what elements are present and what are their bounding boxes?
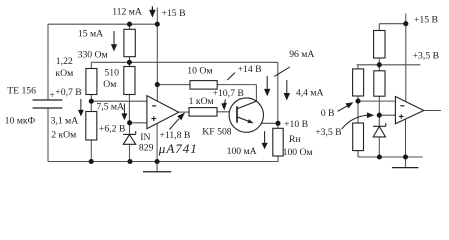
svg-text:+14 В: +14 В: [238, 64, 262, 75]
leader arrow: +10.7V label: [224, 99, 227, 103]
svg-text:+15 В: +15 В: [162, 8, 186, 19]
node: right +3.5 rail: [377, 62, 382, 67]
svg-text:+6,2 В: +6,2 В: [99, 123, 125, 134]
wire: +10V feedback rail: [91, 61, 277, 63]
resistor R2 1.22 kOm: [86, 69, 97, 95]
resistor R3 2 kOm: [86, 112, 97, 141]
wire: op-amp V- pin to ground: [156, 124, 158, 162]
svg-text:829: 829: [139, 142, 154, 153]
svg-text:330 Ом: 330 Ом: [78, 49, 108, 60]
leader arrow: +11.8V label: [170, 119, 179, 130]
wire: right zener stubs: [378, 115, 380, 157]
svg-text:+: +: [49, 90, 54, 101]
node: +10 rail 330-510: [127, 60, 132, 65]
wire: right op-amp V- to ground: [405, 119, 407, 157]
node: right +3.5 input: [377, 113, 382, 118]
wire: right +15V feed: [405, 14, 407, 102]
wire: Rn stubs: [277, 123, 279, 161]
svg-text:10 Ом: 10 Ом: [187, 66, 212, 77]
transistor Q1 collector stroke: [237, 101, 256, 109]
node: ground rail opamp: [155, 159, 160, 164]
wire: non-inverting input: [130, 122, 147, 124]
wire: +15V vertical feed: [156, 8, 158, 102]
wire: right bottom rail: [358, 156, 423, 158]
ground bar left: [143, 171, 171, 173]
transistor Q1 emitter stroke: [237, 117, 252, 123]
op-amp U2 plus sign: [399, 114, 404, 119]
wire: right divider stubs: [378, 65, 380, 115]
op-amp U1 uA741 triangle: [147, 96, 179, 129]
node: divider inverting input: [89, 99, 94, 104]
arrow: 112 mA current: [151, 7, 153, 11]
svg-text:3,1 мА: 3,1 мА: [51, 116, 79, 127]
svg-text:ТЕ 156: ТЕ 156: [7, 85, 36, 96]
resistor R7 right source: [374, 31, 385, 59]
resistor R9 right lower-left divider: [353, 123, 364, 151]
svg-text:15 мА: 15 мА: [78, 29, 103, 40]
node: +15 / 10 Om branch: [155, 82, 160, 87]
leader line: 96 mA label: [274, 67, 290, 76]
transistor Q1 KF508 circle: [229, 98, 263, 132]
leader arrow: +14V label: [228, 73, 235, 80]
wire: right inverting input: [358, 100, 395, 102]
node: right +15: [403, 21, 408, 26]
svg-text:Ом: Ом: [103, 79, 116, 90]
svg-text:7,5 мА: 7,5 мА: [96, 102, 124, 113]
node: +10V output: [275, 121, 280, 126]
node: ground rail zener: [127, 159, 132, 164]
wire: inverting input: [91, 100, 147, 102]
op-amp U1 plus sign: [151, 116, 156, 121]
transistor Q1 base bar: [236, 106, 238, 123]
svg-text:112 мА: 112 мА: [112, 6, 142, 17]
svg-text:1,22: 1,22: [56, 56, 73, 67]
wire: right to source R: [379, 24, 406, 65]
node: right 0V divider: [355, 99, 360, 104]
resistor R4 510 Om: [124, 67, 135, 95]
zener diode VD1 IN829: [123, 131, 136, 134]
resistor R6 10 Om: [190, 81, 217, 90]
svg-text:KF 508: KF 508: [202, 126, 231, 137]
wire: 1.22k stubs: [90, 62, 92, 101]
wire: +3.5V rail: [357, 64, 421, 66]
op-amp U1 minus sign: [152, 105, 156, 107]
resistor R8 right upper-left divider: [353, 69, 364, 96]
ground bar right: [392, 167, 419, 169]
resistor R5 1 kOm: [189, 108, 217, 117]
wire: collector feed through 10 Om: [157, 85, 256, 102]
svg-text:2 кОм: 2 кОм: [51, 130, 76, 141]
node: top rail +15: [155, 22, 160, 27]
node: right rail gnd: [403, 154, 408, 159]
leader arrow: +3.5V label: [342, 115, 368, 129]
wire: 510 stubs: [128, 62, 130, 123]
arrow: 100 mA current: [264, 131, 266, 143]
node: right rail zener: [377, 154, 382, 159]
capacitor C1 10uF plates: [33, 100, 63, 108]
svg-text:Rн: Rн: [289, 134, 301, 145]
resistor R10 right divider: [374, 71, 385, 96]
svg-text:1 кОм: 1 кОм: [189, 96, 214, 107]
svg-text:+3,5 В: +3,5 В: [413, 51, 439, 62]
op-amp U2 triangle: [395, 97, 423, 124]
transistor Q1 emitter arrowhead: [248, 119, 254, 123]
wire: base wire: [217, 111, 237, 113]
node: zener +6.2V: [127, 120, 132, 125]
arrow: 15 mA current: [113, 31, 115, 45]
arrow: 3.1 mA current: [80, 99, 82, 110]
svg-text:+3,5 В: +3,5 В: [315, 127, 341, 138]
wire: right non-inverting input: [379, 114, 395, 116]
svg-text:+10,7 В: +10,7 В: [213, 88, 244, 99]
wire: feedback riser: [277, 62, 279, 123]
svg-text:+11,8 В: +11,8 В: [159, 130, 190, 141]
svg-text:+0,7 В: +0,7 В: [55, 87, 81, 98]
arrow: 7.5 mA current: [123, 104, 125, 114]
wire: emitter to +10V node: [253, 122, 277, 124]
wire: bottom ground rail: [48, 156, 278, 162]
svg-text:10 мкФ: 10 мкФ: [5, 116, 36, 127]
zener diode VD2 right: [373, 123, 386, 126]
arrow: 96 mA current: [266, 76, 268, 89]
wire: left edge upper to capacitor: [47, 24, 49, 100]
arrow: 4.4 mA current: [286, 80, 288, 93]
wire: upper-left divider stubs: [357, 65, 359, 101]
svg-text:96 мА: 96 мА: [289, 49, 314, 60]
wire: zener stubs: [129, 123, 131, 162]
wire: 330 Om stubs: [129, 24, 131, 62]
resistor Rn 100 Om: [273, 128, 283, 156]
svg-text:4,4 мА: 4,4 мА: [296, 88, 324, 99]
svg-text:μA741: μA741: [158, 141, 198, 156]
wire: op-amp output: [179, 111, 189, 113]
resistor R1 330 Om: [124, 29, 135, 56]
wire: ground stub: [156, 162, 158, 172]
node: ground rail 2k: [89, 159, 94, 164]
node: top rail 330: [127, 22, 132, 27]
svg-text:+10 В: +10 В: [284, 119, 308, 130]
leader arrow: 0V label: [338, 106, 348, 112]
svg-text:+15 В: +15 В: [414, 15, 438, 26]
wire: right ground stub: [405, 157, 407, 168]
svg-text:кОм: кОм: [55, 68, 73, 79]
svg-text:0 В: 0 В: [321, 108, 335, 119]
svg-text:100 Ом: 100 Ом: [283, 147, 313, 158]
svg-text:100 мА: 100 мА: [227, 146, 257, 157]
op-amp U2 minus sign: [400, 105, 404, 107]
svg-text:510: 510: [104, 68, 119, 79]
wire: right op-amp output: [424, 110, 441, 112]
wire: left edge lower from capacitor: [47, 108, 49, 162]
wire: top rail of regulator box: [48, 23, 157, 25]
wire: lower-left divider stubs: [357, 101, 359, 157]
wire: 2k stubs: [90, 101, 92, 161]
